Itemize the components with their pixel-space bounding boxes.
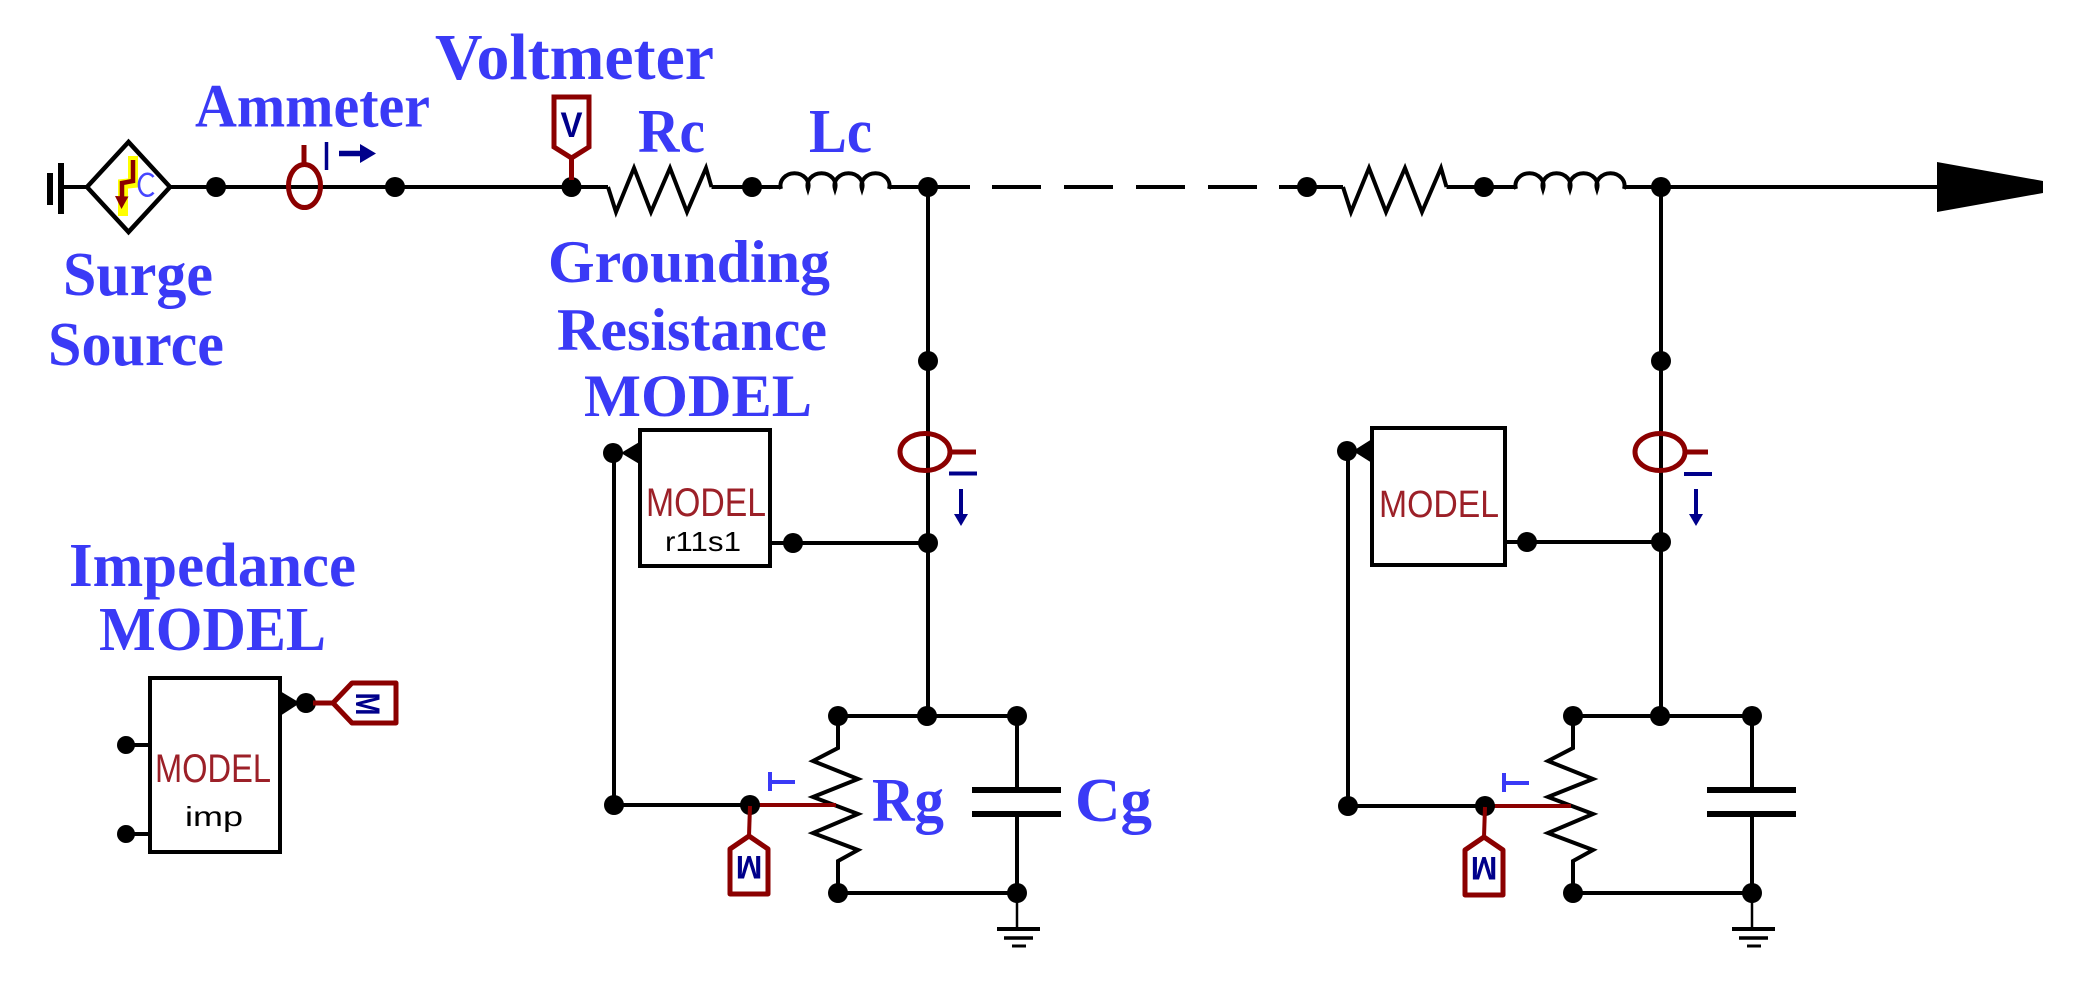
top rail left RC group [838,714,1017,718]
bottom rail right [1573,891,1752,895]
capacitor Cg [1015,716,1019,789]
ground terminal bars at surge source [50,163,61,214]
ammeter current direction mark [325,142,329,170]
C label in diamond [139,174,154,196]
svg-text:Impedance: Impedance [69,532,356,600]
wire left branch down [612,453,616,805]
ground right [1751,893,1754,929]
resistor Rg vertical [813,716,858,893]
voltmeter node dot [562,177,582,197]
resistor right (unlabeled) [1343,168,1447,212]
MODEL box r11s1 [640,430,770,566]
node dot between Rc and Lc [742,177,762,197]
top rail right RC group [1573,714,1752,718]
vertical wire T1 down [926,187,930,716]
svg-text:Cg: Cg [1075,767,1152,835]
wire right branch down [1346,451,1350,806]
svg-text:Surge: Surge [63,241,213,309]
svg-text:M: M [736,849,763,885]
node dot right section [1297,177,1317,197]
svg-text:MODEL: MODEL [646,481,766,525]
bottom rail left [838,891,1017,895]
surge source diamond [87,142,170,232]
output arrow [1937,162,2043,212]
svg-text:MODEL: MODEL [155,747,271,791]
probe type mark blue left [768,772,772,791]
svg-text:MODEL: MODEL [99,596,326,664]
capacitor right [1750,716,1754,789]
svg-text:Rg: Rg [872,767,944,835]
node T2 junction dot [1651,177,1671,197]
resistor Rc [608,168,712,212]
resistor right vertical [1548,716,1593,893]
svg-text:Ammeter: Ammeter [195,74,430,141]
ground left [1016,893,1019,929]
node dot A [206,177,226,197]
dashed transmission line wire [992,185,1257,189]
wire box output to vertical [770,541,928,545]
M flag right [1465,837,1503,895]
inductor right (unlabeled) [1516,173,1625,189]
node dot B [385,177,405,197]
svg-text:Source: Source [48,311,224,379]
voltmeter flag [569,156,574,180]
svg-text:MODEL: MODEL [584,363,812,429]
svg-text:r11s1: r11s1 [665,526,741,557]
node dot [1474,177,1494,197]
svg-text:imp: imp [185,801,243,832]
svg-text:Rc: Rc [638,98,705,166]
lightning bolt yellow [123,156,133,216]
svg-text:MODEL: MODEL [1379,484,1499,526]
node T1 junction dot [918,177,938,197]
inductor Lc [780,173,889,189]
M flag left [730,836,768,894]
impedance box input pins [128,743,150,747]
svg-text:Grounding: Grounding [548,229,830,295]
svg-text:Lc: Lc [809,98,872,166]
impedance box output pin [280,691,300,716]
svg-text:M: M [348,693,386,716]
svg-text:M: M [1471,850,1498,886]
ammeter probe circle [289,165,321,208]
svg-text:V: V [561,106,584,145]
probe type mark blue right [1502,773,1506,792]
svg-text:Resistance: Resistance [557,297,827,363]
lightning bolt red arrow [122,160,133,200]
current probe ring right [1635,434,1685,471]
wire from terminal to diamond [61,185,87,189]
tap node and red wire left [750,803,836,807]
impedance MODEL box [150,678,280,852]
MODEL box right [1372,428,1505,565]
wire box output to vertical right [1505,540,1661,544]
impedance M flag [333,683,396,723]
current probe ring left [900,434,950,471]
wire main horizontal left section [170,185,608,189]
vertical wire T2 down [1659,187,1663,716]
tap node and red wire right [1485,804,1571,808]
svg-text:Voltmeter: Voltmeter [435,21,714,94]
